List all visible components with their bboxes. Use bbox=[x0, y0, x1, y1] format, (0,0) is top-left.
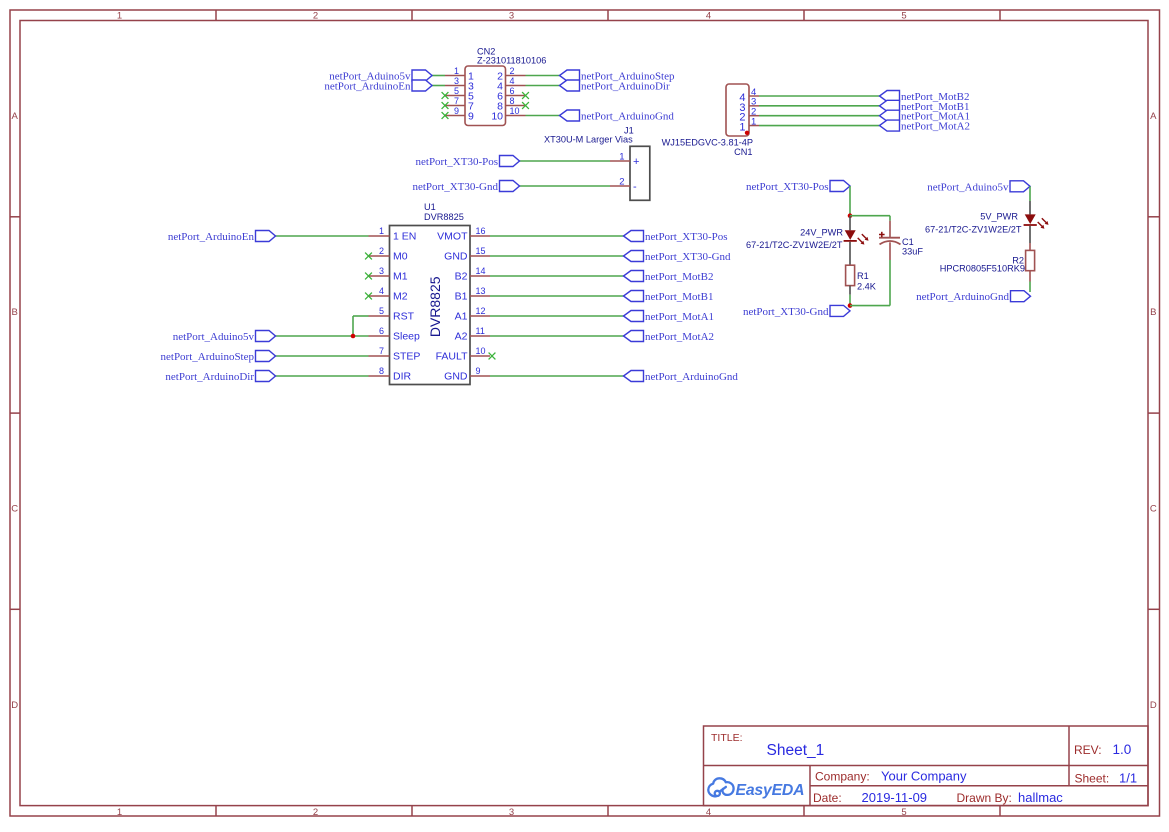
svg-text:1 EN: 1 EN bbox=[393, 230, 416, 242]
svg-text:REV:: REV: bbox=[1074, 743, 1102, 757]
svg-text:EasyEDA: EasyEDA bbox=[736, 782, 805, 799]
svg-text:1: 1 bbox=[117, 11, 122, 22]
svg-text:B2: B2 bbox=[455, 270, 468, 282]
svg-text:Sheet:: Sheet: bbox=[1075, 772, 1110, 786]
svg-text:14: 14 bbox=[476, 266, 486, 276]
svg-text:C1: C1 bbox=[902, 237, 914, 247]
svg-text:3: 3 bbox=[509, 11, 514, 22]
svg-text:netPort_MotA2: netPort_MotA2 bbox=[645, 331, 714, 343]
svg-text:Z-231011810106: Z-231011810106 bbox=[477, 56, 546, 66]
svg-text:VMOT: VMOT bbox=[437, 230, 468, 242]
svg-text:4: 4 bbox=[706, 807, 711, 818]
svg-text:Your Company: Your Company bbox=[881, 769, 967, 784]
svg-text:netPort_ArduinoGnd: netPort_ArduinoGnd bbox=[645, 371, 738, 383]
svg-text:netPort_MotA1: netPort_MotA1 bbox=[645, 311, 714, 323]
svg-text:netPort_XT30-Gnd: netPort_XT30-Gnd bbox=[743, 306, 829, 318]
svg-text:Drawn By:: Drawn By: bbox=[957, 791, 1012, 805]
svg-text:13: 13 bbox=[476, 286, 486, 296]
svg-text:2: 2 bbox=[313, 807, 318, 818]
svg-text:netPort_MotB1: netPort_MotB1 bbox=[645, 291, 713, 303]
svg-text:2.4K: 2.4K bbox=[857, 282, 877, 292]
svg-text:CN1: CN1 bbox=[734, 147, 752, 157]
svg-text:1: 1 bbox=[454, 66, 459, 76]
svg-text:A2: A2 bbox=[455, 330, 468, 342]
svg-text:11: 11 bbox=[476, 326, 485, 336]
svg-text:C: C bbox=[1150, 504, 1157, 515]
svg-text:8: 8 bbox=[510, 96, 515, 106]
svg-text:10: 10 bbox=[491, 110, 503, 122]
svg-text:netPort_MotA2: netPort_MotA2 bbox=[901, 121, 970, 133]
svg-text:A1: A1 bbox=[455, 310, 468, 322]
svg-text:netPort_XT30-Pos: netPort_XT30-Pos bbox=[645, 231, 728, 243]
svg-text:A: A bbox=[1150, 111, 1157, 122]
svg-text:-: - bbox=[633, 181, 637, 193]
svg-text:netPort_XT30-Gnd: netPort_XT30-Gnd bbox=[412, 181, 498, 193]
svg-text:netPort_Aduino5v: netPort_Aduino5v bbox=[927, 181, 1009, 193]
svg-text:GND: GND bbox=[444, 370, 468, 382]
svg-text:DVR8825: DVR8825 bbox=[424, 212, 464, 222]
svg-text:5: 5 bbox=[901, 11, 906, 22]
svg-text:15: 15 bbox=[476, 246, 486, 256]
svg-text:D: D bbox=[11, 700, 18, 711]
svg-text:netPort_ArduinoEn: netPort_ArduinoEn bbox=[168, 231, 255, 243]
svg-text:3: 3 bbox=[379, 266, 384, 276]
svg-text:B: B bbox=[1150, 307, 1156, 318]
svg-text:M1: M1 bbox=[393, 270, 408, 282]
svg-text:C: C bbox=[11, 504, 18, 515]
svg-text:5: 5 bbox=[901, 807, 906, 818]
svg-text:U1: U1 bbox=[424, 202, 436, 212]
svg-text:2019-11-09: 2019-11-09 bbox=[862, 790, 928, 805]
svg-text:3: 3 bbox=[454, 76, 459, 86]
svg-text:netPort_ArduinoStep: netPort_ArduinoStep bbox=[161, 351, 255, 363]
svg-text:1: 1 bbox=[117, 807, 122, 818]
svg-text:A: A bbox=[12, 111, 19, 122]
svg-text:5: 5 bbox=[454, 86, 459, 96]
svg-text:7: 7 bbox=[379, 346, 384, 356]
svg-text:1: 1 bbox=[619, 151, 624, 162]
svg-text:B1: B1 bbox=[455, 290, 468, 302]
svg-text:netPort_XT30-Gnd: netPort_XT30-Gnd bbox=[645, 251, 731, 263]
svg-text:Company:: Company: bbox=[815, 770, 870, 784]
svg-text:netPort_XT30-Pos: netPort_XT30-Pos bbox=[416, 156, 499, 168]
svg-text:3: 3 bbox=[509, 807, 514, 818]
svg-text:6: 6 bbox=[510, 86, 515, 96]
svg-text:4: 4 bbox=[510, 76, 515, 86]
svg-text:Date:: Date: bbox=[813, 791, 842, 805]
svg-text:9: 9 bbox=[476, 366, 481, 376]
svg-text:16: 16 bbox=[476, 226, 486, 236]
svg-text:1: 1 bbox=[739, 122, 745, 134]
svg-text:5: 5 bbox=[379, 306, 384, 316]
svg-text:R1: R1 bbox=[857, 271, 869, 281]
svg-text:2: 2 bbox=[510, 66, 515, 76]
svg-text:D: D bbox=[1150, 700, 1157, 711]
svg-text:4: 4 bbox=[706, 11, 711, 22]
svg-text:DIR: DIR bbox=[393, 370, 412, 382]
svg-text:HPCR0805F510RK9: HPCR0805F510RK9 bbox=[940, 264, 1025, 274]
svg-text:DVR8825: DVR8825 bbox=[427, 276, 443, 337]
svg-text:M2: M2 bbox=[393, 290, 408, 302]
svg-text:1/1: 1/1 bbox=[1119, 771, 1137, 786]
svg-text:netPort_ArduinoEn: netPort_ArduinoEn bbox=[324, 81, 411, 93]
svg-text:6: 6 bbox=[379, 326, 384, 336]
svg-text:M0: M0 bbox=[393, 250, 408, 262]
svg-text:TITLE:: TITLE: bbox=[711, 732, 743, 744]
svg-text:9: 9 bbox=[468, 110, 474, 122]
svg-text:Sleep: Sleep bbox=[393, 330, 420, 342]
svg-text:4: 4 bbox=[379, 286, 384, 296]
svg-text:Sheet_1: Sheet_1 bbox=[767, 742, 825, 759]
svg-text:33uF: 33uF bbox=[902, 247, 923, 257]
svg-text:FAULT: FAULT bbox=[436, 350, 468, 362]
svg-text:netPort_ArduinoDir: netPort_ArduinoDir bbox=[581, 81, 670, 93]
svg-text:2: 2 bbox=[619, 176, 624, 187]
svg-text:1.0: 1.0 bbox=[1113, 742, 1132, 757]
svg-text:+: + bbox=[633, 156, 639, 168]
svg-text:2: 2 bbox=[313, 11, 318, 22]
svg-text:netPort_ArduinoGnd: netPort_ArduinoGnd bbox=[581, 111, 674, 123]
svg-text:24V_PWR: 24V_PWR bbox=[800, 228, 843, 238]
svg-text:XT30U-M Larger Vias: XT30U-M Larger Vias bbox=[544, 135, 633, 145]
svg-text:1: 1 bbox=[751, 116, 756, 127]
svg-text:netPort_MotB2: netPort_MotB2 bbox=[645, 271, 713, 283]
svg-text:B: B bbox=[12, 307, 18, 318]
svg-text:12: 12 bbox=[476, 306, 486, 316]
svg-text:netPort_XT30-Pos: netPort_XT30-Pos bbox=[746, 181, 829, 193]
svg-text:GND: GND bbox=[444, 250, 468, 262]
svg-text:netPort_ArduinoDir: netPort_ArduinoDir bbox=[165, 371, 254, 383]
svg-text:9: 9 bbox=[454, 106, 459, 116]
svg-text:5V_PWR: 5V_PWR bbox=[980, 212, 1018, 222]
svg-text:hallmac: hallmac bbox=[1018, 790, 1063, 805]
svg-text:netPort_Aduino5v: netPort_Aduino5v bbox=[173, 331, 255, 343]
svg-text:8: 8 bbox=[379, 366, 384, 376]
svg-text:RST: RST bbox=[393, 310, 415, 322]
svg-text:1: 1 bbox=[379, 226, 384, 236]
svg-text:netPort_ArduinoGnd: netPort_ArduinoGnd bbox=[916, 291, 1009, 303]
svg-text:WJ15EDGVC-3.81-4P: WJ15EDGVC-3.81-4P bbox=[662, 138, 753, 148]
svg-text:67-21/T2C-ZV1W2E/2T: 67-21/T2C-ZV1W2E/2T bbox=[925, 225, 1022, 235]
svg-text:10: 10 bbox=[510, 106, 520, 116]
svg-text:10: 10 bbox=[476, 346, 486, 356]
svg-text:2: 2 bbox=[379, 246, 384, 256]
svg-text:67-21/T2C-ZV1W2E/2T: 67-21/T2C-ZV1W2E/2T bbox=[746, 240, 843, 250]
svg-text:STEP: STEP bbox=[393, 350, 420, 362]
svg-text:7: 7 bbox=[454, 96, 459, 106]
